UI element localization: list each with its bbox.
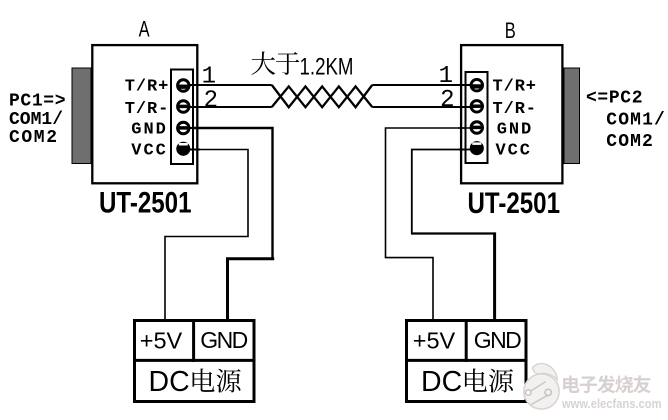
svg-text:<=PC2: <=PC2 [586,88,643,108]
svg-text:2: 2 [440,87,454,114]
svg-text:VCC: VCC [131,142,166,161]
svg-text:GND: GND [200,327,248,353]
svg-text:1: 1 [202,63,216,90]
svg-text:UT-2501: UT-2501 [468,187,561,220]
svg-text:COM1/: COM1/ [606,111,665,131]
svg-text:PC1=>: PC1=> [9,92,66,112]
svg-text:+5V: +5V [140,327,183,353]
svg-text:www.elecfans.com: www.elecfans.com [561,396,661,411]
svg-text:GND: GND [497,120,532,139]
svg-text:B: B [505,18,516,43]
svg-text:T/R+: T/R+ [125,77,169,96]
svg-text:GND: GND [131,120,166,139]
svg-text:COM2: COM2 [9,128,57,148]
svg-text:COM2: COM2 [606,132,653,152]
svg-text:GND: GND [474,327,522,353]
svg-text:T/R-: T/R- [493,100,537,119]
svg-text:VCC: VCC [496,142,531,161]
svg-text:COM1/: COM1/ [9,110,63,130]
svg-text:1.2KM: 1.2KM [300,53,354,80]
svg-text:T/R-: T/R- [125,100,169,119]
svg-text:T/R+: T/R+ [493,77,537,96]
svg-text:UT-2501: UT-2501 [99,187,192,220]
svg-text:+5V: +5V [413,327,456,353]
svg-text:DC: DC [149,366,190,398]
svg-text:2: 2 [204,87,218,114]
svg-text:DC: DC [421,366,462,398]
svg-text:A: A [139,16,150,41]
